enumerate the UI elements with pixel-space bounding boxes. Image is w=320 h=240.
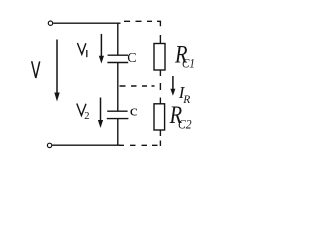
arrowhead V (54, 93, 59, 102)
capacitor C1 lower plate (107, 62, 128, 64)
arrow V1 stem (100, 34, 102, 58)
arrowhead V1 (99, 56, 104, 64)
svg-text:R: R (182, 94, 190, 106)
wire RC1 bottom stub (159, 70, 161, 76)
capacitor C1 upper plate (108, 54, 128, 56)
dashed wire RC2 to bottom node (119, 141, 160, 147)
label V1 subscript 1 (86, 50, 88, 57)
svg-text:C1: C1 (182, 55, 195, 70)
resistor RC2 body (154, 104, 165, 130)
arrow V stem (56, 40, 58, 96)
wire bottom horizontal (52, 144, 120, 146)
svg-text:C: C (127, 51, 136, 66)
dashed wire top node to RC1 (124, 21, 160, 43)
wire RC2 bottom stub (159, 130, 161, 136)
arrow V2 stem (100, 98, 102, 122)
svg-text:c: c (130, 102, 138, 119)
terminal top-left (48, 21, 52, 25)
capacitor C2 upper plate (107, 110, 127, 112)
wire RC2 top stub (159, 98, 161, 104)
resistor RC1 body (154, 44, 165, 71)
terminal bottom-left (47, 143, 51, 147)
dashed wire middle node (120, 83, 161, 90)
wire capacitor branch upper (117, 23, 119, 55)
arrowhead V2 (98, 120, 103, 128)
wire capacitor branch lower (117, 119, 119, 146)
label V glyph (32, 61, 40, 78)
svg-text:C2: C2 (178, 117, 192, 132)
svg-text:2: 2 (84, 111, 89, 122)
capacitor C2 lower plate (107, 118, 129, 120)
arrow IR stem (172, 76, 174, 90)
wire top horizontal (53, 22, 120, 24)
label V1 glyph (77, 43, 86, 54)
wire capacitor branch middle (117, 63, 119, 112)
label V2 glyph (77, 104, 86, 116)
arrowhead IR (170, 89, 175, 96)
